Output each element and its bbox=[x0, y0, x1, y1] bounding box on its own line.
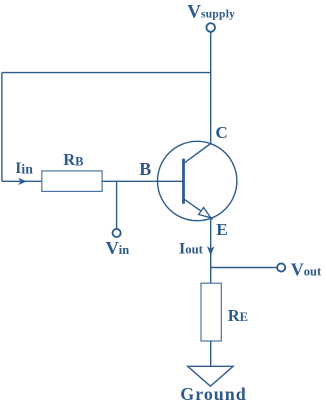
resistor RB bbox=[42, 171, 102, 192]
ground symbol bbox=[188, 366, 233, 386]
transistor Q1 emitter arrowhead bbox=[199, 208, 211, 218]
transistor Q1 emitter lead bbox=[184, 199, 213, 219]
arrow Iout current direction bbox=[207, 246, 215, 256]
wire emitter node to Vout terminal bbox=[211, 267, 277, 269]
svg-text:C: C bbox=[216, 123, 228, 142]
transistor Q1 base bar bbox=[182, 159, 185, 204]
wire into resistor RB bbox=[2, 180, 42, 182]
terminal Vout bbox=[277, 263, 285, 271]
terminal Vsupply bbox=[206, 23, 215, 32]
terminal Vin bbox=[113, 229, 121, 237]
wire emitter down to RE bbox=[210, 218, 212, 284]
transistor Q1 circle bbox=[158, 141, 237, 220]
transistor Q1 collector lead bbox=[184, 144, 210, 163]
svg-text:Ground: Ground bbox=[180, 384, 246, 404]
wire Vsupply to collector C bbox=[210, 32, 212, 143]
resistor RE bbox=[201, 283, 221, 341]
svg-text:Iout: Iout bbox=[179, 241, 204, 258]
wire RE to ground bbox=[210, 341, 212, 366]
wire RB to base bbox=[102, 180, 183, 182]
svg-text:Iin: Iin bbox=[15, 160, 33, 177]
svg-text:B: B bbox=[139, 159, 151, 179]
svg-text:E: E bbox=[216, 220, 227, 239]
arrow Iin current direction bbox=[18, 178, 27, 185]
wire top horizontal (collector feedback to left) bbox=[2, 72, 211, 74]
wire node to Vin terminal bbox=[116, 181, 118, 228]
wire left vertical bbox=[1, 73, 3, 182]
